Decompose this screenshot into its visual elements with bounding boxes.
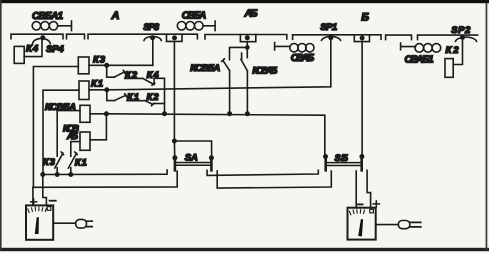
wire battery1 minus [43,175,47,206]
svg-text:SБ: SБ [334,153,348,164]
svg-text:Б: Б [361,12,369,24]
wire battery1 plus [32,187,34,205]
coil CVBA1 [32,21,71,31]
wire tap2 split [230,42,248,60]
fuse SP4 [33,36,51,44]
node staple [163,112,166,115]
gauge 2 needle [358,219,363,237]
node wireA-left [41,173,44,176]
bus segment 6 [386,35,412,40]
contact KSVAB [241,53,248,114]
contact K2 row1 [114,70,125,77]
wire KSVAB left [71,142,80,157]
svg-text:АБ: АБ [66,131,78,142]
wire K3 left [33,67,78,188]
svg-text:СВАБ: СВАБ [291,53,315,64]
wire K4 to SP4 [24,39,42,57]
gauge 1 scale [28,207,51,213]
relay K3 [78,57,89,74]
label minus1 [50,200,56,202]
wire SP3 drop [152,39,154,65]
label plus1 [31,199,37,205]
bus segment 1 [11,34,63,39]
svg-text:К3: К3 [93,55,106,66]
bus segment 7 [418,35,478,40]
node SA corner [173,139,176,142]
svg-text:СВБА: СВБА [182,10,207,21]
wire KSVBA right to SB [90,114,325,157]
svg-text:СВБА1: СВБА1 [32,11,63,22]
svg-text:К1: К1 [91,79,103,90]
connector tap 1 [167,34,183,41]
fuse SP2 [456,36,477,42]
wire K3 right to SP3 [89,64,153,66]
svg-text:КСВБА: КСВБА [190,63,220,74]
wire K1 to SP1 [89,39,331,89]
svg-text:К2: К2 [147,92,160,103]
wire battery2 minus [355,171,357,208]
switch SA [175,157,212,170]
wire KSVAB right [90,114,106,140]
connector tap 2 [240,35,255,42]
plug 2 [398,221,421,229]
wire SA feed [174,41,211,157]
relay KSVBA [80,105,90,122]
relay K2 [445,59,453,78]
wire row1 drop [107,65,115,77]
node KSVAB contact [246,112,249,115]
battery 1 [26,205,53,239]
wire row2 staple [154,103,165,105]
gauge 1 needle [35,217,39,234]
svg-text:К2: К2 [125,70,138,81]
svg-text:КСВАБ: КСВАБ [252,66,277,77]
switch SB [326,156,362,170]
wire tap3 to SB [361,42,363,157]
svg-text:СВАБ1: СВАБ1 [405,54,434,65]
battery 2 [348,208,376,240]
contact K1 row2 [114,94,126,101]
plug 1 [76,219,93,228]
node K1 row [105,88,108,91]
svg-text:SP1: SP1 [320,22,337,33]
svg-text:А: А [111,10,120,22]
coil CVBA [177,21,215,31]
wire K2 to SP2 [453,39,462,64]
coil CVAB [275,43,314,52]
svg-text:К3: К3 [43,157,56,168]
wire battery2 plug [376,224,399,226]
contact K4 row1 [125,78,155,85]
svg-text:SP4: SP4 [46,44,64,55]
wire D [217,171,331,188]
node KSVBA [105,112,108,115]
bus segment 2 [67,34,85,39]
wire row2 drop [107,90,115,101]
contact K3 bottom [55,152,64,175]
svg-text:SP3: SP3 [143,22,160,33]
svg-text:К2: К2 [446,45,460,56]
wire C [207,170,318,175]
node split [246,46,249,49]
label plus2 [373,201,379,207]
svg-text:К4: К4 [147,70,160,81]
svg-text:SP2: SP2 [451,25,471,36]
wire B [33,171,177,187]
svg-text:АБ: АБ [244,8,259,20]
node SB pin left [324,155,327,158]
svg-text:К1: К1 [75,158,87,169]
coil CVAB1 [401,43,441,52]
relay KSV AB [80,132,90,150]
relay K4 [14,46,24,63]
fuse SP3 [144,36,161,41]
contact K2 row2 [127,101,154,106]
bus segment 4 [205,35,287,40]
wire battery2 plus [367,170,371,207]
wire KSVBA left [57,111,80,157]
wire A [43,170,167,174]
border frame [0,0,489,3]
node SB pin right [360,155,363,158]
node SA pin right [210,156,213,159]
label minus2 [357,203,363,205]
contact KSVBA [222,59,230,114]
wire K1 left [43,90,79,174]
bus segment 5 [293,35,381,40]
node SA pin left [173,156,176,159]
connector tap 3 [354,35,369,42]
gauge 2 scale [349,209,373,215]
contact K1 bottom [68,152,77,175]
node wireA-K3 [56,173,59,176]
relay K1 [79,81,89,100]
node K3 row [105,64,108,67]
bus segment 3 [88,34,197,39]
svg-text:SA: SA [185,153,198,164]
node KSVBA contact [228,112,231,115]
fuse SP1 [322,36,341,40]
node wireA-K1 [69,173,72,176]
wire battery1 plug [53,222,75,224]
svg-text:К4: К4 [26,44,39,55]
wire row1 staple [154,78,164,113]
